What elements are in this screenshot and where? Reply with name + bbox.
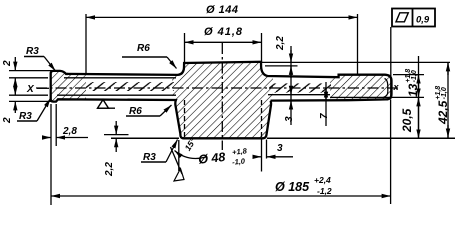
svg-text:+1,8: +1,8 <box>232 146 248 157</box>
dimension 3 (hub draft offset, right) <box>253 156 262 158</box>
hidden extension lines inside hub (dashed) <box>184 100 186 138</box>
svg-text:7: 7 <box>319 113 330 119</box>
datum flag symbol below hub <box>171 147 183 174</box>
dimension 2 (bottom lip thickness, left) <box>9 94 48 96</box>
extension lines below hub <box>178 140 180 171</box>
part inner web plate lines <box>57 94 176 96</box>
svg-text:13+1,8-1,0: 13+1,8-1,0 <box>405 69 420 97</box>
dimension 2,2 (left, near base plane) <box>104 134 129 136</box>
dimension 2,2 (boss step, top right) <box>262 61 450 63</box>
svg-text:Ø 41,8: Ø 41,8 <box>204 26 243 38</box>
svg-text:R6: R6 <box>137 43 150 54</box>
svg-text:3: 3 <box>284 116 295 122</box>
svg-text:-1,2: -1,2 <box>317 186 332 196</box>
dimension D41,8 <box>184 33 186 63</box>
svg-text:x: x <box>393 82 400 92</box>
dimensions 13 +1,8/-1,0 and 20,5 (right chain) <box>393 74 424 76</box>
base plane line <box>111 137 179 139</box>
svg-text:Ø 48: Ø 48 <box>198 150 226 167</box>
angle 15 deg with arc arrow <box>175 151 207 159</box>
svg-text:-1,0: -1,0 <box>232 156 247 166</box>
dimension 2,8 (rim lip width) <box>55 104 57 146</box>
svg-text:Ø 144: Ø 144 <box>206 4 238 16</box>
svg-text:2,2: 2,2 <box>275 36 286 51</box>
svg-text:Ø 185: Ø 185 <box>275 180 310 194</box>
section hatching: left bead, hub, right bead zones <box>51 62 392 139</box>
svg-text:20,5: 20,5 <box>400 108 414 133</box>
svg-text:2: 2 <box>2 60 13 67</box>
svg-text:R3: R3 <box>26 46 39 57</box>
dimension 42,5 +1,8/-1,0 (overall height) <box>447 62 449 138</box>
section hatching: thin web strips <box>86 82 174 91</box>
part outline: web top surface, hub boss and right bead <box>66 62 392 101</box>
svg-text:2,8: 2,8 <box>62 126 77 137</box>
support triangle symbol under web <box>98 100 109 109</box>
dimension 2 (top lip thickness, left) <box>9 70 55 72</box>
flatness tolerance frame 0,9 with leader <box>392 9 435 27</box>
svg-text:2: 2 <box>2 117 13 124</box>
centerline: horizontal mid-plane axis (dash-dot) <box>36 87 398 89</box>
dimension 3 (web plate, vertical) <box>290 87 292 95</box>
right bead inner contour line <box>384 79 388 98</box>
svg-text:+2,4: +2,4 <box>314 175 331 185</box>
part outline: left rim bead cap and lip <box>51 71 68 74</box>
svg-text:42,5+1,8-1,0: 42,5+1,8-1,0 <box>435 86 450 125</box>
dimension 7 (web, vertical) <box>325 82 327 126</box>
svg-text:3: 3 <box>277 143 283 154</box>
svg-text:0,9: 0,9 <box>416 15 430 26</box>
dimension D144 <box>85 14 87 75</box>
dimension D185 +2,4/-1,2 <box>50 104 52 205</box>
centerline: vertical axis of hub (dash-dot) <box>221 43 223 150</box>
svg-text:2,2: 2,2 <box>104 162 115 177</box>
svg-text:X: X <box>26 84 35 95</box>
